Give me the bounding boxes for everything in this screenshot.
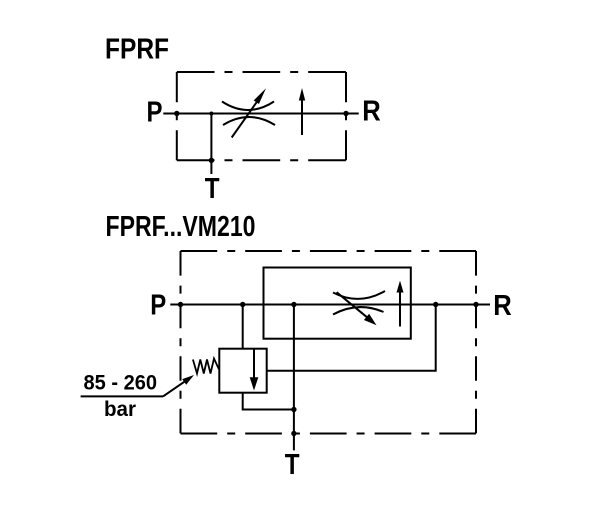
node junction P-R line / T branch diagram 1 [209,112,213,116]
svg-text:FPRF: FPRF [105,34,169,66]
valve envelope box diagram 2 : left edge [180,251,182,434]
relief valve flow arrow (down) [253,349,255,378]
svg-text:R: R [493,290,512,322]
wire P-R flow line diagram 1 [163,113,358,115]
node dot at R border crossing diagram 1 [343,111,348,116]
wire relief valve outlet to R diagram 2 [267,305,436,371]
valve envelope box diagram 1 : right edge [345,72,347,160]
node junction drain / T branch diagram 2 [291,407,296,412]
node dot at R border crossing diagram 2 [473,302,478,307]
node junction pilot line diagram 2 [240,302,245,307]
valve envelope box diagram 2 : right edge [475,251,477,434]
variable restrictor arcs diagram 1 [222,102,275,126]
wire relief valve drain to T diagram 2 [243,393,294,410]
node dot at P border crossing diagram 2 [178,302,183,307]
setting leader line [163,381,185,396]
node junction relief outlet diagram 2 [433,302,438,307]
node dot at P border crossing diagram 1 [174,111,179,116]
wire T branch diagram 2 [293,305,295,451]
setting leader arrowhead [182,375,194,385]
restrictor adjustment arrow diagram 1 [232,102,257,138]
svg-text:T: T [205,173,220,205]
restrictor adjustment arrow diagram 2 [337,292,370,319]
svg-text:P: P [147,97,163,129]
node dot at T border crossing diagram 1 [209,158,214,163]
relief valve spring [193,359,219,374]
node dot at T border crossing diagram 2 [291,431,296,436]
valve envelope box diagram 1 : left edge [176,72,178,160]
svg-text:R: R [362,96,381,128]
relief valve body square diagram 2 [219,349,266,393]
valve envelope box diagram 2 : bottom edge [181,433,477,435]
restrictor sub-block rectangle diagram 2 [264,268,411,339]
svg-text:T: T [285,449,300,481]
wire P-R flow line diagram 2 [170,304,490,306]
variable restrictor arcs diagram 2 [333,291,385,315]
svg-text:85 - 260: 85 - 260 [84,372,158,395]
valve envelope box (dash-dot) diagram 2 : top edge [181,250,477,252]
setting label underline [81,395,163,397]
flow compensator arrow (vertical, up) diagram 2 [399,291,401,327]
svg-text:FPRF...VM210: FPRF...VM210 [106,211,256,243]
wire T branch diagram 1 [210,114,212,175]
wire pilot line to relief valve diagram 2 [242,305,244,349]
node junction T branch diagram 2 [291,302,296,307]
valve envelope box diagram 1 : bottom edge [177,159,346,161]
svg-text:bar: bar [104,398,136,421]
svg-text:P: P [150,290,166,322]
valve envelope box (dash-dot) diagram 1 : top edge [177,71,346,73]
flow compensator arrow (vertical, up) diagram 1 [301,100,303,136]
